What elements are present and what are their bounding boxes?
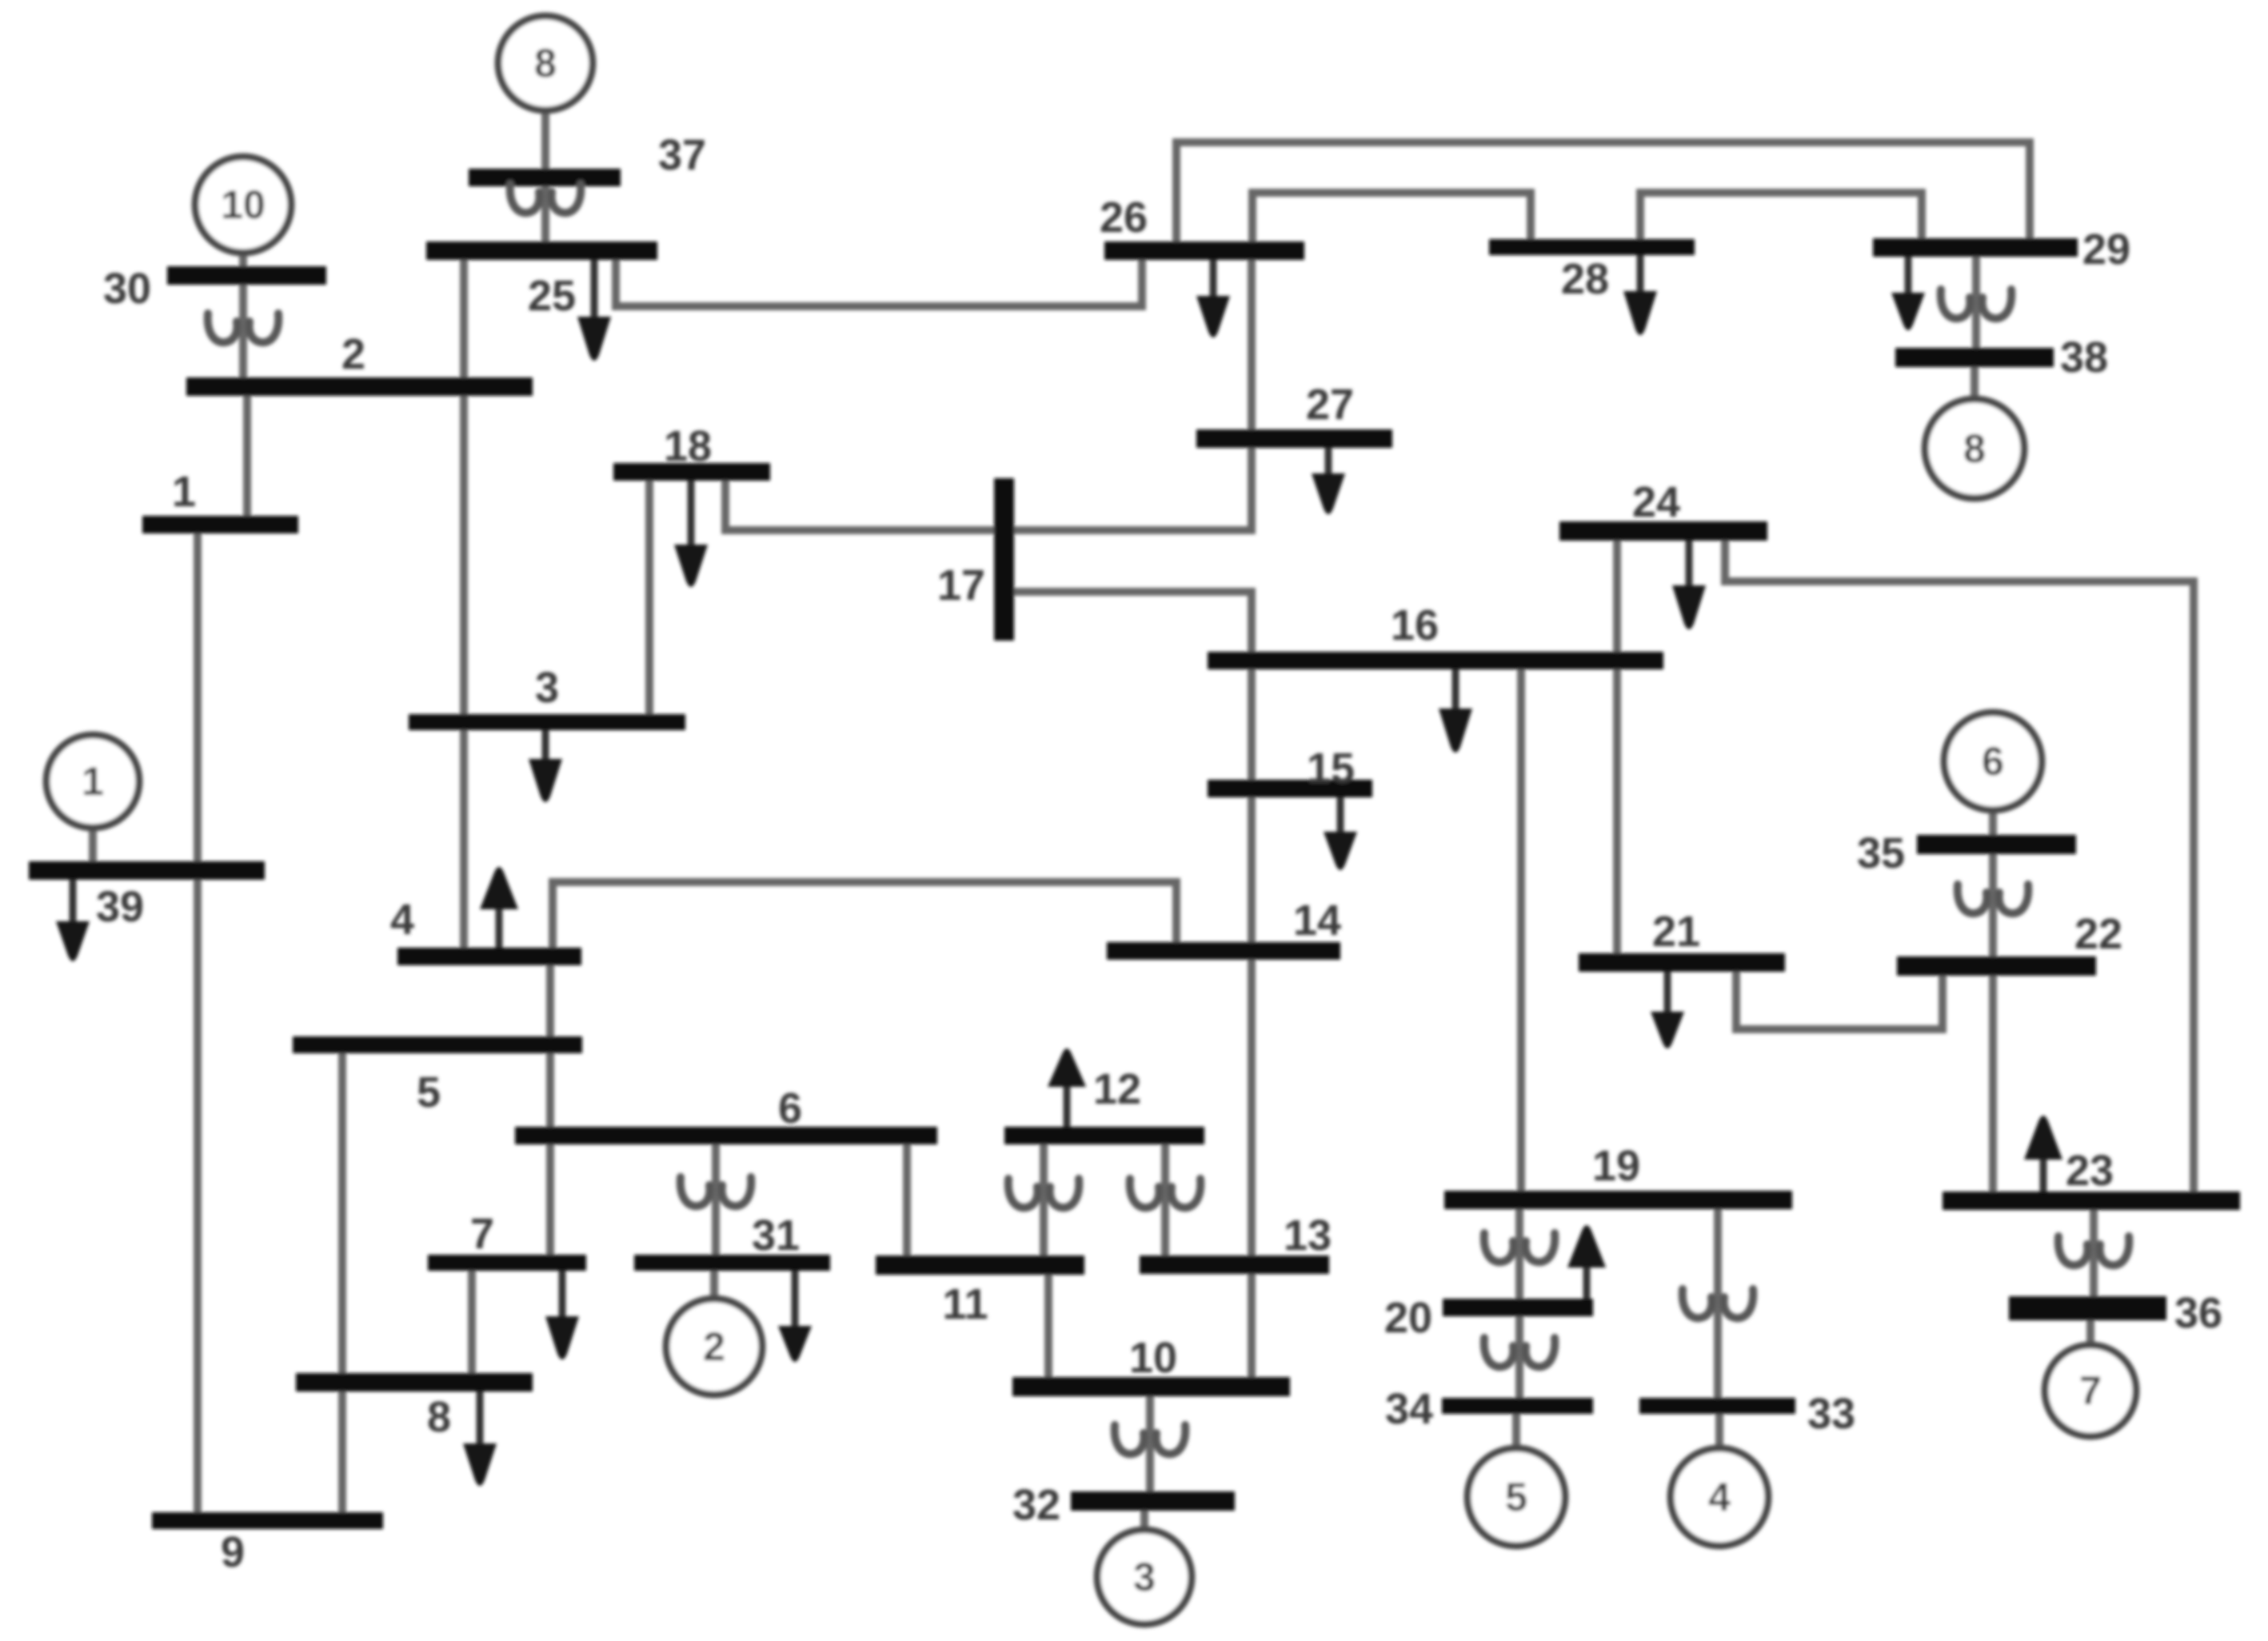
wire line 16-19 [1517, 669, 1525, 1191]
bus 16 busbar [1208, 652, 1663, 669]
node label bus 5 [417, 1068, 441, 1116]
generator 4 [1671, 1448, 1768, 1546]
svg-text:27: 27 [1306, 381, 1354, 429]
wire generator lead G8-37 [541, 110, 549, 169]
node label bus 19 [1592, 1142, 1640, 1190]
wire line 24-23 [1725, 541, 2194, 1192]
generation arrow at bus 12 (up arrow) [1048, 1048, 1086, 1127]
svg-text:2: 2 [703, 1324, 725, 1369]
load at bus 24 (down arrow) [1672, 541, 1706, 629]
bus 3 busbar [409, 714, 685, 730]
svg-text:5: 5 [417, 1068, 441, 1116]
wire transformer branch 12-13 [1161, 1144, 1169, 1256]
wire line 14-13 [1248, 960, 1256, 1256]
node label bus 23 [2066, 1147, 2114, 1195]
wire line 2-3 [460, 396, 468, 714]
bus 23 busbar [1943, 1192, 2240, 1210]
load at bus 16 (down arrow) [1439, 669, 1472, 753]
load at bus 28 (down arrow) [1623, 255, 1657, 335]
bus 24 busbar [1559, 521, 1767, 541]
bus 29 busbar [1873, 238, 2078, 257]
svg-text:21: 21 [1652, 908, 1700, 956]
wire line 25-2 [460, 260, 468, 377]
bus 10 busbar [1012, 1377, 1290, 1396]
svg-text:23: 23 [2066, 1147, 2114, 1195]
bus 28 busbar [1489, 239, 1695, 255]
wire generator lead G8-38 [1971, 367, 1979, 399]
bus 34 busbar [1442, 1398, 1593, 1414]
wire generator lead G2-31 [710, 1271, 718, 1299]
svg-text:7: 7 [470, 1210, 494, 1258]
generation arrow at bus 23 (up arrow) [2024, 1116, 2062, 1192]
node label bus 28 [1561, 255, 1609, 303]
svg-text:8: 8 [427, 1393, 451, 1441]
transformer T12-13 winding symbol [1130, 1179, 1201, 1208]
node label bus 16 [1391, 601, 1439, 649]
svg-text:22: 22 [2074, 910, 2122, 958]
svg-text:32: 32 [1012, 1481, 1060, 1529]
generator 8 [1925, 399, 2024, 498]
node label bus 27 [1306, 381, 1354, 429]
node label bus 21 [1652, 908, 1700, 956]
load at bus 39 (down arrow) [56, 880, 90, 961]
svg-text:4: 4 [1708, 1475, 1731, 1519]
wire transformer branch 19-20 [1515, 1209, 1523, 1299]
node label bus 20 [1384, 1294, 1432, 1342]
load at bus 18 (down arrow) [674, 481, 708, 587]
bus 33 busbar [1639, 1398, 1795, 1414]
svg-text:34: 34 [1385, 1385, 1433, 1433]
wire line 5-8 [338, 1053, 346, 1373]
wire line 1-39 [194, 533, 202, 861]
load at bus 21 (down arrow) [1651, 972, 1684, 1048]
svg-text:26: 26 [1100, 194, 1148, 242]
bus 26 busbar [1104, 242, 1304, 260]
svg-text:1: 1 [172, 468, 196, 516]
wire line 18-3 [645, 481, 653, 714]
wire line 24-16 [1613, 541, 1621, 652]
transformer T6-31 winding symbol [681, 1177, 752, 1206]
bus 20 busbar [1443, 1299, 1593, 1316]
node label bus 10 [1129, 1334, 1177, 1382]
generator 10 [195, 157, 291, 253]
node label bus 15 [1307, 745, 1355, 793]
wire transformer branch 22-35 [1989, 854, 1997, 956]
wire line 26-29 [1176, 142, 2030, 242]
svg-text:13: 13 [1284, 1212, 1332, 1260]
generator 5 [1467, 1448, 1565, 1546]
generation arrow at bus 4 (up arrow) [480, 867, 518, 948]
svg-text:3: 3 [1133, 1555, 1156, 1599]
bus 32 busbar [1071, 1491, 1235, 1511]
svg-text:8: 8 [1963, 426, 1986, 471]
wire line 2-1 [243, 396, 251, 516]
wire line 8-9 [338, 1391, 346, 1512]
svg-text:16: 16 [1391, 601, 1439, 649]
svg-text:30: 30 [103, 265, 151, 313]
wire line 16-21 [1613, 669, 1621, 953]
load at bus 15 (down arrow) [1324, 797, 1357, 870]
svg-text:1: 1 [82, 759, 104, 804]
wire transformer branch 12-11 [1040, 1144, 1048, 1256]
bus 31 busbar [634, 1255, 830, 1271]
node label bus 34 [1385, 1385, 1433, 1433]
transformer T19-33 winding symbol [1683, 1289, 1754, 1318]
node label bus 9 [221, 1528, 245, 1576]
wire transformer branch 29-38 [1972, 257, 1980, 348]
transformer T29-38 winding symbol [1941, 289, 2012, 318]
bus 11 busbar [876, 1256, 1084, 1275]
wire line 6-7 [546, 1144, 554, 1255]
wire line 3-4 [460, 730, 468, 948]
svg-text:14: 14 [1293, 896, 1341, 944]
svg-text:4: 4 [390, 896, 414, 944]
load at bus 3 (down arrow) [529, 730, 562, 802]
wire transformer branch 2-30 [239, 285, 247, 377]
wire line 17-16 [1014, 592, 1252, 652]
transformer T19-20 winding symbol [1484, 1233, 1555, 1262]
svg-text:6: 6 [778, 1084, 802, 1132]
svg-text:3: 3 [535, 664, 559, 712]
bus 13 busbar [1140, 1256, 1329, 1274]
generator 2 [666, 1299, 762, 1395]
node label bus 8 [427, 1393, 451, 1441]
bus 37 busbar [469, 169, 621, 186]
svg-text:10: 10 [221, 182, 266, 227]
load at bus 25 (down arrow) [577, 260, 611, 361]
node label bus 22 [2074, 910, 2122, 958]
wire generator lead G5-34 [1512, 1414, 1520, 1448]
node label bus 6 [778, 1084, 802, 1132]
node label bus 7 [470, 1210, 494, 1258]
transformer T22-35 winding symbol [1958, 884, 2029, 913]
node label bus 13 [1284, 1212, 1332, 1260]
wire line 13-10 [1248, 1274, 1256, 1377]
wire line 25-26 [616, 260, 1142, 306]
bus 2 busbar [186, 377, 533, 396]
node label bus 24 [1632, 478, 1680, 526]
node label bus 3 [535, 664, 559, 712]
wire line 26-27 [1248, 260, 1256, 429]
bus 6 busbar [515, 1127, 937, 1144]
node label bus 33 [1807, 1390, 1855, 1438]
bus 25 busbar [426, 242, 657, 260]
bus 21 busbar [1579, 953, 1785, 972]
svg-text:36: 36 [2174, 1289, 2222, 1337]
wire generator lead G6-35 [1989, 810, 1997, 835]
svg-text:28: 28 [1561, 255, 1609, 303]
node label bus 26 [1100, 194, 1148, 242]
svg-text:18: 18 [664, 422, 712, 470]
wire transformer branch 20-34 [1515, 1316, 1523, 1398]
wire generator lead G1-39 [89, 828, 97, 861]
wire transformer branch 10-32 [1146, 1396, 1154, 1491]
generator 7 [2045, 1345, 2136, 1436]
wire line 22-23 [1989, 976, 1997, 1192]
node label bus 14 [1293, 896, 1341, 944]
wire generator lead G7-36 [2086, 1320, 2094, 1345]
svg-text:19: 19 [1592, 1142, 1640, 1190]
wire line 15-14 [1248, 797, 1256, 942]
node label bus 1 [172, 468, 196, 516]
node label bus 30 [103, 265, 151, 313]
bus 1 busbar [142, 516, 298, 533]
svg-text:9: 9 [221, 1528, 245, 1576]
svg-text:29: 29 [2082, 226, 2130, 273]
load at bus 26 (down arrow) [1196, 260, 1230, 337]
wire line 6-11 [903, 1144, 911, 1256]
wire transformer branch 25-37 [541, 186, 549, 242]
generation arrow at bus 20 (up arrow) [1567, 1225, 1606, 1299]
bus 17 busbar (vertical) [994, 478, 1014, 641]
node label bus 2 [341, 330, 365, 378]
bus 15 busbar [1208, 780, 1372, 797]
svg-text:17: 17 [937, 561, 985, 609]
svg-text:24: 24 [1632, 478, 1680, 526]
wire line 21-22 [1736, 972, 1943, 1029]
svg-text:10: 10 [1129, 1334, 1177, 1382]
wire line 4-14 [553, 882, 1176, 948]
bus 27 busbar [1196, 429, 1392, 448]
bus 4 busbar [397, 948, 581, 965]
svg-text:35: 35 [1857, 829, 1905, 877]
node label bus 32 [1012, 1481, 1060, 1529]
transformer T10-32 winding symbol [1115, 1425, 1186, 1454]
load at bus 8 (down arrow) [463, 1391, 497, 1486]
wire transformer branch 6-31 [712, 1144, 720, 1255]
svg-text:11: 11 [942, 1280, 988, 1328]
bus 36 busbar [2009, 1296, 2166, 1320]
svg-text:7: 7 [2079, 1368, 2102, 1413]
bus 8 busbar [296, 1373, 533, 1391]
wire generator lead G10-30 [239, 253, 247, 266]
wire line 5-6 [546, 1053, 554, 1127]
node label bus 31 [752, 1212, 800, 1260]
svg-text:37: 37 [658, 131, 706, 179]
bus 38 busbar [1895, 348, 2054, 367]
svg-text:6: 6 [1982, 739, 2004, 784]
bus 22 busbar [1897, 956, 2096, 976]
node label bus 18 [664, 422, 712, 470]
generator 3 [1097, 1530, 1192, 1624]
bus 14 busbar [1107, 942, 1340, 960]
svg-text:15: 15 [1307, 745, 1355, 793]
transformer T25-37 winding symbol [510, 184, 581, 213]
node label bus 17 [937, 561, 985, 609]
wire line 4-5 [546, 965, 554, 1036]
transformer T20-34 winding symbol [1484, 1338, 1555, 1367]
svg-text:38: 38 [2060, 333, 2108, 381]
bus 7 busbar [428, 1255, 586, 1271]
node label bus 35 [1857, 829, 1905, 877]
node label bus 25 [528, 272, 576, 320]
bus 18 busbar [613, 463, 770, 481]
node label bus 39 [96, 883, 144, 931]
wire line 18-17 [725, 481, 994, 530]
svg-text:2: 2 [341, 330, 365, 378]
svg-text:25: 25 [528, 272, 576, 320]
bus 12 busbar [1004, 1127, 1204, 1144]
node label bus 37 [658, 131, 706, 179]
load at bus 29 (down arrow) [1891, 257, 1925, 330]
wire transformer branch 23-36 [2090, 1210, 2098, 1296]
bus 30 busbar [167, 266, 326, 285]
transformer T12-11 winding symbol [1008, 1179, 1080, 1208]
wire line 39-9 [194, 880, 202, 1512]
node label bus 12 [1093, 1065, 1141, 1113]
bus 9 busbar [152, 1512, 383, 1529]
wire line 27-17 [1014, 448, 1252, 530]
svg-text:12: 12 [1093, 1065, 1141, 1113]
wire line 16-15 [1248, 669, 1256, 780]
load at bus 27 (down arrow) [1312, 448, 1345, 514]
bus 39 busbar [29, 861, 265, 880]
wire transformer branch 19-33 [1714, 1209, 1722, 1398]
load at bus 31 (down arrow) [778, 1271, 812, 1362]
wire line 28-29 [1640, 193, 1922, 239]
node label bus 36 [2174, 1289, 2222, 1337]
wire line 11-10 [1044, 1275, 1052, 1377]
bus 5 busbar [293, 1036, 582, 1053]
wire line 7-8 [468, 1271, 476, 1373]
svg-text:33: 33 [1807, 1390, 1855, 1438]
generator 8 [498, 16, 593, 110]
bus 19 busbar [1444, 1191, 1792, 1209]
svg-text:5: 5 [1505, 1475, 1527, 1519]
svg-text:8: 8 [534, 41, 557, 86]
wire line 26-28 [1252, 193, 1531, 242]
node label bus 11 [942, 1280, 988, 1328]
transformer T23-36 winding symbol [2058, 1236, 2130, 1265]
svg-text:31: 31 [752, 1212, 800, 1260]
load at bus 7 (down arrow) [545, 1271, 579, 1360]
bus 35 busbar [1917, 835, 2076, 854]
wire generator lead G3-32 [1140, 1511, 1148, 1530]
node label bus 38 [2060, 333, 2108, 381]
node label bus 4 [390, 896, 414, 944]
svg-text:20: 20 [1384, 1294, 1432, 1342]
transformer T2-30 winding symbol [208, 313, 279, 342]
generator 1 [46, 735, 139, 828]
generator 6 [1944, 713, 2042, 810]
wire generator lead G4-33 [1715, 1414, 1723, 1448]
node label bus 29 [2082, 226, 2130, 273]
svg-text:39: 39 [96, 883, 144, 931]
